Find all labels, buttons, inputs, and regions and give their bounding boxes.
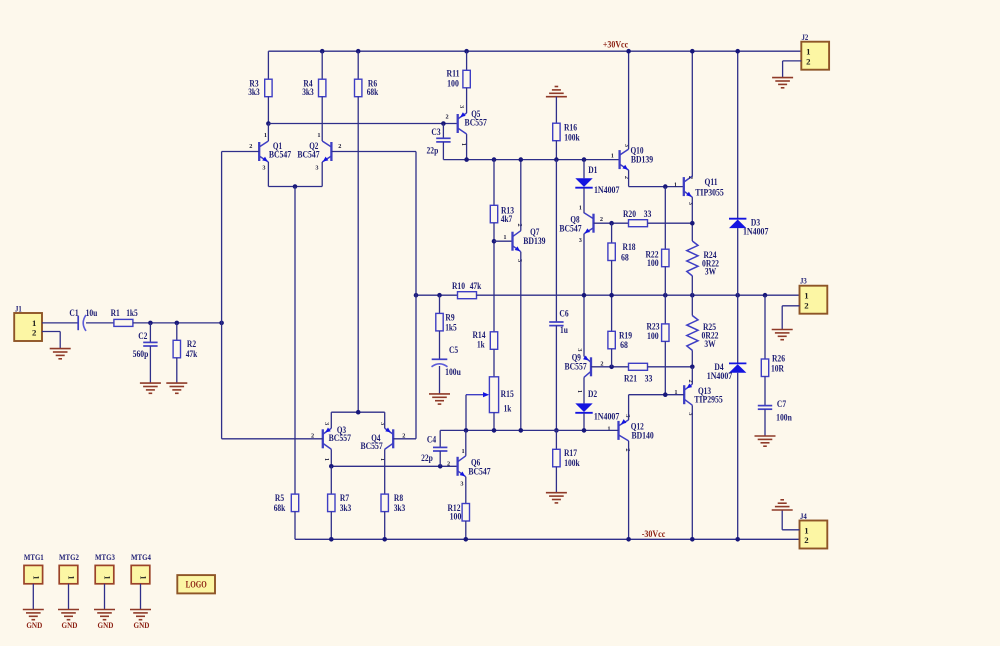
transistor Q8 <box>559 204 603 244</box>
svg-text:C3: C3 <box>431 127 441 137</box>
label GND MTG1 <box>26 620 42 630</box>
svg-text:Q11: Q11 <box>704 177 718 187</box>
junction output D3D4 <box>735 293 740 298</box>
wire R6 to Q3 Q4 emitters <box>357 97 359 413</box>
junction rail Q11 <box>690 49 695 54</box>
resistor R7 <box>328 493 352 513</box>
junction rail D4 <box>735 537 740 542</box>
svg-text:1: 1 <box>31 576 40 580</box>
svg-text:68k: 68k <box>274 503 286 513</box>
svg-text:3: 3 <box>687 412 694 415</box>
svg-text:3: 3 <box>516 259 523 262</box>
svg-text:LOGO: LOGO <box>186 580 207 590</box>
svg-text:R16: R16 <box>564 123 578 133</box>
svg-text:2: 2 <box>687 176 694 179</box>
svg-text:3k3: 3k3 <box>394 503 406 513</box>
wire R15 wiper down <box>465 395 467 431</box>
wire R7 top <box>330 466 332 494</box>
svg-text:-30Vcc: -30Vcc <box>642 530 666 540</box>
svg-text:2: 2 <box>447 461 450 468</box>
junction R15 bottom <box>492 428 497 433</box>
wire Q9 base <box>591 366 629 368</box>
label GND MTG2 <box>62 620 78 630</box>
wire J2 pin2 h <box>783 60 802 62</box>
svg-text:GND: GND <box>98 620 114 630</box>
resistor R6 <box>355 79 379 97</box>
wire R22 bottom <box>664 267 666 296</box>
svg-text:BC547: BC547 <box>269 150 292 160</box>
svg-text:2: 2 <box>249 143 252 150</box>
junction Q7 base <box>492 239 497 244</box>
svg-text:R14: R14 <box>472 330 486 340</box>
svg-text:3: 3 <box>687 202 694 205</box>
junction C4 bottom <box>438 464 443 469</box>
svg-text:R9: R9 <box>445 313 455 323</box>
resistor R9 <box>436 313 457 333</box>
capacitor C7 <box>758 399 792 423</box>
svg-text:1u: 1u <box>560 325 568 335</box>
junction Q9 base R19 <box>609 365 614 370</box>
ground MTG2 <box>58 610 79 620</box>
wire Q12 collector <box>628 441 630 539</box>
svg-text:1N4007: 1N4007 <box>594 185 620 195</box>
ground J2 <box>772 78 793 88</box>
wire Q4 base <box>393 438 416 440</box>
svg-text:100k: 100k <box>564 132 580 142</box>
svg-text:R21: R21 <box>624 374 638 384</box>
wire Q10 to Q11 base <box>629 186 684 188</box>
svg-text:10R: 10R <box>771 364 785 374</box>
svg-text:R2: R2 <box>187 339 197 349</box>
ground MTG4 <box>130 610 151 620</box>
svg-text:100: 100 <box>647 331 659 341</box>
wire D3 bottom <box>737 228 739 295</box>
wire R3 top <box>267 51 269 79</box>
svg-text:J1: J1 <box>15 304 22 313</box>
svg-text:R8: R8 <box>394 493 404 503</box>
resistor R11 <box>446 69 470 89</box>
svg-text:TIP2955: TIP2955 <box>694 395 723 405</box>
svg-text:1N4007: 1N4007 <box>707 371 733 381</box>
svg-text:D1: D1 <box>588 165 598 175</box>
svg-text:J4: J4 <box>800 512 807 521</box>
svg-text:2: 2 <box>32 328 37 338</box>
resistor R22 <box>645 249 669 268</box>
wire R22 top <box>664 187 666 250</box>
wire Q13 emitter <box>691 367 693 384</box>
svg-text:GND: GND <box>134 620 150 630</box>
junction rail R11 <box>464 49 469 54</box>
wire R18 top <box>611 223 613 243</box>
wire +30V rail <box>268 50 801 52</box>
svg-text:3W: 3W <box>705 267 716 277</box>
ground R17 <box>546 493 567 503</box>
svg-text:1N4007: 1N4007 <box>743 226 769 236</box>
svg-text:68: 68 <box>620 340 628 350</box>
resistor R17 <box>553 448 580 468</box>
svg-text:2: 2 <box>806 56 811 66</box>
junction R21 Q13e <box>690 365 695 370</box>
wire R3 bottom <box>267 97 269 124</box>
wire D3 top <box>737 51 739 218</box>
wire D1 top <box>583 160 585 179</box>
resistor R5 <box>274 493 299 513</box>
wire Q12 to Q13 base <box>629 394 685 396</box>
wire Q11 emitter <box>691 197 693 241</box>
transistor Q12 <box>607 414 654 451</box>
svg-text:1: 1 <box>264 132 267 139</box>
wire J3 pin2 v <box>781 306 783 330</box>
label GND MTG3 <box>98 620 114 630</box>
transistor Q3 <box>311 422 351 461</box>
node R3 Q1 collector <box>266 121 271 126</box>
svg-text:1: 1 <box>806 47 810 57</box>
junction rail D3 <box>735 49 740 54</box>
svg-text:1: 1 <box>103 576 112 580</box>
capacitor C6 <box>549 309 569 336</box>
svg-text:BC547: BC547 <box>468 467 491 477</box>
svg-text:68: 68 <box>621 253 629 263</box>
wire R25 top <box>691 295 693 315</box>
diode D3 <box>729 217 769 236</box>
svg-text:R20: R20 <box>623 209 637 219</box>
svg-text:3: 3 <box>323 422 330 425</box>
junction output Q8Q9 <box>582 293 587 298</box>
wire R17 top <box>555 430 557 449</box>
wire R11 to Q5 <box>466 88 468 113</box>
wire R19 top <box>611 295 613 331</box>
junction output R26 <box>763 293 768 298</box>
wire J1 pin1 <box>42 322 78 324</box>
svg-text:2: 2 <box>804 300 809 310</box>
transistor Q2 <box>297 132 341 171</box>
capacitor C3 <box>427 127 451 155</box>
junction D1 top <box>582 157 587 162</box>
junction rail R12 <box>464 537 469 542</box>
svg-text:BC547: BC547 <box>297 150 320 160</box>
svg-text:1: 1 <box>804 526 808 536</box>
wire Q11 collector <box>691 51 693 176</box>
wire R2 bottom <box>176 358 178 383</box>
transistor Q9 <box>564 348 603 393</box>
net label -30Vcc <box>642 530 666 540</box>
svg-text:68k: 68k <box>367 87 379 97</box>
svg-text:1: 1 <box>32 318 36 328</box>
connector J3 <box>800 277 828 314</box>
resistor R26 <box>761 354 785 377</box>
junction feedback <box>414 293 419 298</box>
svg-text:1: 1 <box>503 234 506 241</box>
wire D2 bottom <box>583 413 585 431</box>
svg-text:2: 2 <box>600 216 603 223</box>
wire Q2 base <box>331 151 416 153</box>
wire Q4 emitter up <box>384 412 386 428</box>
ground C5 <box>429 394 450 404</box>
wire R8 bottom <box>384 512 386 540</box>
wire bias line <box>443 159 619 161</box>
wire output right <box>477 294 802 296</box>
wire R26 to C7 <box>764 377 766 406</box>
junction Q7 emitter <box>519 428 524 433</box>
junction R22 top <box>663 184 668 189</box>
junction R13 top <box>492 157 497 162</box>
svg-text:3: 3 <box>458 105 465 108</box>
capacitor C1 <box>69 308 97 331</box>
wire input pair base vertical <box>415 152 417 439</box>
transistor Q13 <box>674 380 723 416</box>
connector J2 <box>801 33 829 69</box>
wire J3 pin2 h <box>782 305 799 307</box>
svg-text:TIP3055: TIP3055 <box>695 187 724 197</box>
wire C1 to R1 <box>86 322 114 324</box>
svg-text:560p: 560p <box>133 349 149 359</box>
ground J1 <box>50 349 71 359</box>
svg-text:R7: R7 <box>340 493 350 503</box>
svg-text:1k: 1k <box>504 404 512 414</box>
wire R25 bottom <box>691 351 693 367</box>
resistor R10 <box>452 281 481 299</box>
wire Q1 base <box>222 151 260 153</box>
svg-text:J3: J3 <box>800 277 807 286</box>
wire R21 to Q13e <box>648 366 693 368</box>
svg-text:MTG3: MTG3 <box>95 552 115 562</box>
svg-text:3W: 3W <box>704 339 715 349</box>
svg-text:1k5: 1k5 <box>445 323 457 333</box>
wire C3 top <box>442 124 444 139</box>
svg-text:47k: 47k <box>470 281 482 291</box>
svg-text:1N4007: 1N4007 <box>594 412 620 422</box>
svg-text:R18: R18 <box>623 242 637 252</box>
wire R4 bottom to Q2 collector <box>321 97 323 141</box>
resistor R14 <box>472 330 497 350</box>
svg-text:1: 1 <box>607 425 610 432</box>
junction Q6 collector <box>464 428 469 433</box>
svg-text:22p: 22p <box>427 146 439 156</box>
ground C2 <box>140 383 161 393</box>
wire R5 to rail <box>294 512 296 540</box>
svg-text:C2: C2 <box>138 331 148 341</box>
wire R14 to R15 <box>493 349 495 377</box>
svg-text:1: 1 <box>139 576 148 580</box>
resistor R20 <box>623 209 652 227</box>
svg-text:R23: R23 <box>646 322 660 332</box>
ground R2 <box>166 383 187 393</box>
svg-text:1k5: 1k5 <box>126 308 138 318</box>
svg-text:1k: 1k <box>477 340 485 350</box>
svg-text:R15: R15 <box>501 389 515 399</box>
ground J3 <box>772 330 793 340</box>
wire Q6 collector <box>465 430 467 455</box>
transistor Q4 <box>360 422 405 461</box>
svg-text:C5: C5 <box>449 345 459 355</box>
svg-text:33: 33 <box>644 209 652 219</box>
junction tail <box>293 184 298 189</box>
svg-text:100: 100 <box>447 78 459 88</box>
wire R9 to C5 <box>439 331 441 359</box>
wire Q4 collector down <box>384 449 386 494</box>
wire R13 top <box>493 160 495 206</box>
wire R20 to Q11e <box>648 222 693 224</box>
transistor Q5 <box>446 105 488 146</box>
wire D4 top <box>737 295 739 363</box>
svg-text:3k3: 3k3 <box>302 87 314 97</box>
svg-text:2: 2 <box>624 448 631 451</box>
label GND MTG4 <box>134 620 150 630</box>
wire R17 bottom <box>555 467 557 493</box>
svg-text:1: 1 <box>804 291 808 301</box>
wire R23 top <box>664 295 666 324</box>
transistor Q10 <box>611 144 654 179</box>
wire Q7 base <box>494 240 513 242</box>
svg-text:BC547: BC547 <box>559 223 582 233</box>
diode D4 <box>707 362 747 381</box>
wire R7 bottom <box>330 512 332 540</box>
svg-text:C4: C4 <box>427 434 437 444</box>
resistor R4 <box>302 79 326 97</box>
svg-text:BC557: BC557 <box>465 118 488 128</box>
junction rail R8 <box>382 537 387 542</box>
connector J1 <box>14 304 42 341</box>
svg-text:C7: C7 <box>777 399 787 409</box>
junction Q3 R7 <box>329 464 334 469</box>
wire emitter join <box>268 186 322 188</box>
wire Q10 emitter <box>628 170 630 187</box>
junction Q5 emitter <box>464 157 469 162</box>
wire Q8 emitter <box>583 234 585 296</box>
resistor R2 <box>173 339 197 359</box>
junction output R24R25 <box>690 293 695 298</box>
svg-text:MTG4: MTG4 <box>131 552 151 562</box>
svg-text:R5: R5 <box>275 493 285 503</box>
transistor Q7 <box>503 224 546 263</box>
wire output left <box>416 294 458 296</box>
svg-text:BC557: BC557 <box>564 362 587 372</box>
resistor R24 <box>687 241 720 277</box>
svg-text:22p: 22p <box>421 453 433 463</box>
diode D2 <box>575 389 619 421</box>
wire C6 bottom <box>555 326 557 431</box>
wire Q12 emitter up <box>628 395 630 420</box>
mounting hole MTG3 <box>95 552 115 610</box>
svg-text:R1: R1 <box>111 308 121 318</box>
wire Q3 collector down <box>330 449 332 466</box>
wire R19 bottom <box>611 349 613 367</box>
wire Q3 emitter up <box>330 412 332 428</box>
wire Q3Q4 collector line <box>331 465 457 467</box>
svg-text:2: 2 <box>446 114 449 121</box>
wire C6 top <box>555 160 557 322</box>
junction C3 top <box>441 121 446 126</box>
wire C7 bottom <box>764 409 766 436</box>
wire C2 bottom <box>149 346 151 383</box>
wire R9 top <box>439 295 441 313</box>
ground MTG1 <box>23 610 44 620</box>
resistor R3 <box>248 79 272 97</box>
wire J1 pin2 h <box>42 331 60 333</box>
svg-text:MTG2: MTG2 <box>59 552 79 562</box>
capacitor C4 <box>421 430 447 466</box>
transistor Q1 <box>249 132 291 171</box>
junction R9 top <box>437 293 442 298</box>
wire R1 to node <box>133 322 222 324</box>
wire R16 bottom <box>555 141 557 160</box>
logo box <box>177 575 215 593</box>
wire D1 to Q8 <box>583 188 585 214</box>
wire Q1 emitter <box>267 162 269 187</box>
wire Q7 collector <box>520 160 522 231</box>
junction R2 <box>175 321 180 326</box>
svg-text:100n: 100n <box>776 413 792 423</box>
svg-text:100: 100 <box>450 512 462 522</box>
junction rail Q10 <box>626 49 631 54</box>
svg-text:C1: C1 <box>69 308 79 318</box>
wire J4 pin1 v <box>781 510 783 530</box>
resistor R12 <box>447 503 469 521</box>
resistor R21 <box>624 363 653 383</box>
svg-text:3: 3 <box>460 480 463 487</box>
junction R23 Q13 base <box>663 392 668 397</box>
mounting hole MTG2 <box>59 552 79 610</box>
resistor R8 <box>381 493 406 513</box>
svg-text:R10: R10 <box>452 281 466 291</box>
resistor R19 <box>608 331 633 351</box>
svg-text:1: 1 <box>611 152 614 159</box>
wire Q1 collector stub <box>267 124 269 142</box>
svg-text:3: 3 <box>624 414 631 417</box>
resistor R13 <box>490 205 514 224</box>
junction C6 bottom <box>554 428 559 433</box>
svg-text:3: 3 <box>315 165 318 172</box>
svg-text:+30Vcc: +30Vcc <box>603 40 628 50</box>
svg-text:1: 1 <box>323 458 330 461</box>
wire R13 to R14 <box>493 223 495 332</box>
svg-text:BC557: BC557 <box>360 441 383 451</box>
potentiometer R15 <box>466 377 514 414</box>
wire R12 bottom <box>465 521 467 539</box>
svg-text:GND: GND <box>26 620 42 630</box>
resistor R25 <box>687 316 719 351</box>
junction lower tail <box>356 410 361 415</box>
mounting hole MTG1 <box>24 552 44 610</box>
resistor R16 <box>553 123 580 143</box>
junction R20 Q11e <box>690 221 695 226</box>
svg-text:2: 2 <box>516 224 523 227</box>
svg-text:BC557: BC557 <box>329 433 352 443</box>
wire Q3 base <box>222 438 323 440</box>
wire J4 pin1 h <box>782 529 799 531</box>
junction rail R7 <box>329 537 334 542</box>
wire Q3Q4 emitter join <box>331 411 384 413</box>
svg-text:2: 2 <box>338 143 341 150</box>
resistor R18 <box>608 242 636 263</box>
svg-text:47k: 47k <box>186 349 198 359</box>
wire tail to R5 <box>294 187 296 495</box>
svg-text:BD140: BD140 <box>631 431 654 441</box>
transistor Q11 <box>674 176 724 205</box>
wire Q7 emitter <box>520 252 522 431</box>
wire R11 top <box>466 51 468 70</box>
wire R23 bottom <box>664 341 666 394</box>
svg-text:3: 3 <box>579 237 582 244</box>
svg-text:10u: 10u <box>86 308 98 318</box>
svg-text:R11: R11 <box>446 69 460 79</box>
svg-text:3: 3 <box>576 348 583 351</box>
wire gnd to R16 <box>555 97 557 124</box>
wire R24 bottom <box>691 276 693 295</box>
svg-text:BD139: BD139 <box>631 155 654 165</box>
wire C3 bottom <box>442 142 444 160</box>
svg-text:3k3: 3k3 <box>340 503 352 513</box>
